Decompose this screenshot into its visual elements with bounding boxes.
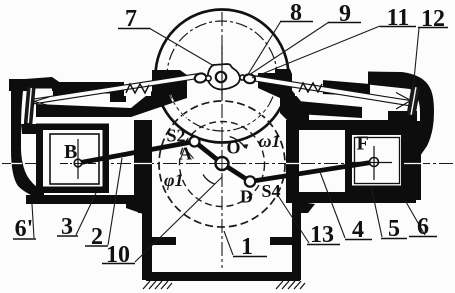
label 5 underline (381, 238, 407, 240)
horizontal centerline (2, 163, 453, 165)
svg-text:5: 5 (388, 216, 400, 242)
label 2 underline (85, 245, 108, 247)
right wall merged (406, 121, 421, 200)
slide block B (item 3) (36, 124, 109, 194)
svg-text:3: 3 (61, 214, 73, 240)
left housing top stub + block (9, 77, 68, 96)
svg-text:A: A (179, 144, 192, 164)
vertical centerline over cam (221, 46, 223, 100)
left arm main band (53, 82, 126, 102)
notch (32, 89, 52, 97)
bottom channel left wall (138, 205, 152, 213)
svg-text:8: 8 (290, 0, 302, 26)
B box inner line (50, 134, 99, 184)
label 11 underline (380, 26, 416, 28)
phi1 angle arc (203, 175, 215, 185)
leader line 6' (32, 204, 34, 238)
svg-text:6: 6 (417, 214, 429, 240)
svg-text:S2: S2 (167, 126, 186, 146)
cam pivot ring 9 (216, 72, 226, 82)
rod fork (34, 97, 49, 102)
block under cap (21, 124, 36, 134)
right housing left wall (286, 130, 299, 196)
left jaw mass (131, 70, 187, 117)
svg-text:11: 11 (387, 5, 410, 31)
label 7 underline (118, 28, 150, 30)
left housing bottom bar (26, 195, 152, 204)
svg-text:9: 9 (339, 1, 351, 27)
leader line 1 (224, 231, 233, 255)
lever linkage B-S2-O-D-F (78, 142, 374, 182)
label 3 underline (57, 235, 78, 237)
leader line 2 (108, 158, 122, 245)
leader line 11 (252, 26, 380, 78)
label 10 underline (102, 263, 135, 265)
cam/eccentric 7 (208, 64, 240, 90)
B pivot (74, 159, 82, 167)
left chain links (194, 72, 207, 83)
right chain links 11 (240, 75, 245, 80)
label 13 underline (307, 244, 340, 246)
svg-text:S4: S4 (262, 181, 281, 201)
right tie rod 11 with turnbuckle (253, 76, 410, 106)
right flange (270, 237, 292, 245)
leader line 4 (320, 172, 345, 238)
leader line 10 (135, 177, 222, 262)
svg-text:12: 12 (421, 6, 445, 32)
left arm lower band (36, 104, 131, 117)
flywheel circle 8 (156, 10, 289, 143)
svg-text:4: 4 (352, 217, 364, 243)
vertical centerline (221, 12, 223, 268)
svg-text:1: 1 (241, 234, 253, 260)
leader line 7 (149, 28, 214, 66)
leader line 9 (249, 22, 329, 75)
leader line 3 (76, 193, 96, 235)
pitch circle (dash-dot) (167, 21, 277, 131)
leader line 13 (277, 194, 309, 243)
label 6' underline (13, 238, 36, 240)
leader line 5 (371, 186, 382, 237)
svg-text:ω1: ω1 (259, 131, 281, 151)
svg-text:F: F (357, 133, 369, 155)
svg-text:10: 10 (106, 242, 130, 268)
label 8 underline (280, 21, 313, 23)
svg-text:D: D (240, 187, 253, 207)
label 1 underline (233, 256, 267, 258)
label 12 underline (418, 27, 448, 29)
right arm lower band (298, 101, 362, 118)
leader line 12 (413, 28, 419, 90)
right housing bottom bar (286, 192, 416, 203)
right connector wedge (280, 88, 309, 121)
label 9 underline (328, 22, 361, 24)
rod fork right (396, 93, 409, 100)
right arm band (322, 80, 370, 96)
leader line 8 (247, 21, 281, 76)
dashed circle small (180, 122, 265, 207)
right pocket bottom fill (388, 111, 417, 122)
svg-text:φ1: φ1 (164, 170, 184, 190)
label 4 underline (345, 239, 372, 241)
svg-text:O: O (227, 138, 241, 158)
dashed gear circle large (159, 101, 285, 227)
left end cap 6' (24, 87, 35, 125)
channel bottom (146, 272, 300, 281)
svg-text:2: 2 (91, 224, 103, 250)
left tie rod with turnbuckle (34, 73, 201, 104)
white pitch-circle breaks over jaws (248, 104, 270, 125)
left step (126, 204, 152, 214)
label 6 underline (409, 236, 437, 238)
right J band (368, 72, 434, 157)
left flange (152, 237, 176, 245)
white centerline breaks over black masses (11, 163, 423, 165)
left housing right wall (134, 120, 152, 198)
omega1 rotation arrow arc (230, 137, 246, 148)
right housing top bar (286, 120, 416, 130)
ground hatch left (143, 281, 172, 289)
svg-text:6': 6' (15, 216, 34, 242)
ground hatch right (276, 281, 305, 289)
svg-text:7: 7 (125, 6, 137, 32)
right jaw mass (258, 69, 292, 98)
right end cap 12 (407, 86, 420, 117)
F pivot (370, 158, 379, 167)
slide block F (item 5) (345, 128, 408, 192)
bottom channel right wall (292, 201, 315, 213)
leader line 6 (406, 202, 425, 235)
tick at node A (188, 152, 194, 159)
left housing C-band column (11, 91, 44, 199)
svg-text:13: 13 (310, 222, 334, 248)
svg-text:B: B (64, 141, 77, 163)
